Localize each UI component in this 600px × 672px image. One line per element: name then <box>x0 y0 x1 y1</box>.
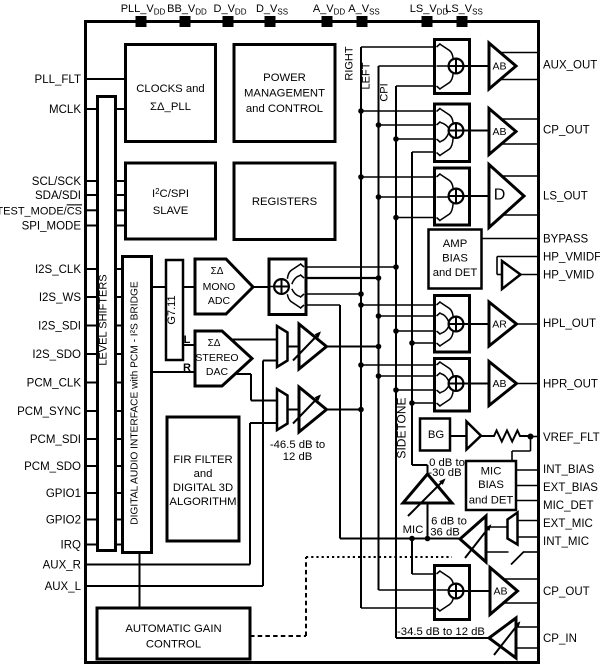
svg-text:PCM_SDI: PCM_SDI <box>30 434 81 446</box>
svg-text:STEREO: STEREO <box>195 352 238 364</box>
svg-text:MIC: MIC <box>481 466 502 478</box>
svg-text:CLOCKS and: CLOCKS and <box>136 83 204 95</box>
svg-text:and CONTROL: and CONTROL <box>246 103 323 115</box>
svg-text:AB: AB <box>492 61 506 73</box>
svg-text:AR: AR <box>492 319 507 331</box>
svg-text:PCM_CLK: PCM_CLK <box>27 378 82 390</box>
svg-text:and DET: and DET <box>469 495 514 507</box>
svg-text:G7.11: G7.11 <box>166 295 178 324</box>
svg-text:I2S_WS: I2S_WS <box>39 292 82 304</box>
svg-text:MIC_DET: MIC_DET <box>543 500 593 512</box>
svg-text:ΣΔ: ΣΔ <box>208 338 221 349</box>
svg-text:SIDETONE: SIDETONE <box>395 397 409 458</box>
svg-text:and: and <box>194 468 213 480</box>
svg-text:DIGITAL AUDIO INTERFACE with P: DIGITAL AUDIO INTERFACE with PCM - I²S B… <box>130 281 141 525</box>
svg-text:INT_MIC: INT_MIC <box>543 536 589 548</box>
svg-text:LEVEL SHIFTERS: LEVEL SHIFTERS <box>98 274 110 365</box>
svg-text:CP_OUT: CP_OUT <box>543 125 590 137</box>
svg-text:AMP: AMP <box>443 238 467 250</box>
svg-text:BIAS: BIAS <box>442 253 468 265</box>
svg-text:CP_OUT: CP_OUT <box>543 586 590 598</box>
svg-text:SDA/SDI: SDA/SDI <box>35 190 81 202</box>
svg-text:PLL_FLT: PLL_FLT <box>35 74 81 86</box>
svg-text:HP_VMIDFB: HP_VMIDFB <box>543 252 600 264</box>
svg-text:BIAS: BIAS <box>478 479 504 491</box>
svg-text:REGISTERS: REGISTERS <box>252 196 318 208</box>
svg-text:GPIO1: GPIO1 <box>46 488 81 500</box>
svg-text:-46.5 dB to: -46.5 dB to <box>270 439 325 451</box>
svg-text:ALGORITHM: ALGORITHM <box>169 496 236 508</box>
svg-text:MANAGEMENT: MANAGEMENT <box>244 88 325 100</box>
svg-text:HPR_OUT: HPR_OUT <box>543 379 598 391</box>
svg-text:FIR FILTER: FIR FILTER <box>173 454 232 466</box>
svg-text:MIC: MIC <box>403 524 424 536</box>
svg-text:CP_IN: CP_IN <box>543 633 577 645</box>
svg-text:RIGHT: RIGHT <box>344 46 356 81</box>
svg-text:GPIO2: GPIO2 <box>46 515 81 527</box>
svg-text:I2S_SDI: I2S_SDI <box>38 321 81 333</box>
svg-text:ADC: ADC <box>208 295 231 307</box>
svg-text:AUTOMATIC GAIN: AUTOMATIC GAIN <box>125 623 221 635</box>
svg-text:AUX_R: AUX_R <box>43 560 81 572</box>
svg-text:CONTROL: CONTROL <box>146 639 201 651</box>
svg-text:ΣΔ: ΣΔ <box>211 266 224 277</box>
svg-text:EXT_BIAS: EXT_BIAS <box>543 482 598 494</box>
svg-text:INT_BIAS: INT_BIAS <box>543 464 594 476</box>
svg-text:EXT_MIC: EXT_MIC <box>543 518 593 530</box>
svg-text:PCM_SYNC: PCM_SYNC <box>17 406 81 418</box>
svg-text:POWER: POWER <box>263 72 306 84</box>
svg-text:SCL/SCK: SCL/SCK <box>32 176 82 188</box>
svg-text:MCLK: MCLK <box>49 104 81 116</box>
svg-text:AB: AB <box>492 378 506 390</box>
svg-text:I2S_CLK: I2S_CLK <box>35 264 81 276</box>
svg-text:CPI: CPI <box>379 83 391 101</box>
svg-text:AUX_OUT: AUX_OUT <box>543 60 597 72</box>
svg-text:HPL_OUT: HPL_OUT <box>543 318 596 330</box>
svg-text:36 dB: 36 dB <box>430 527 460 539</box>
svg-text:BG: BG <box>428 429 444 441</box>
svg-text:SLAVE: SLAVE <box>153 205 189 217</box>
svg-text:LS_OUT: LS_OUT <box>543 191 588 203</box>
svg-text:TEST_MODE/CS: TEST_MODE/CS <box>0 205 82 217</box>
svg-text:IRQ: IRQ <box>61 540 82 552</box>
svg-text:DIGITAL 3D: DIGITAL 3D <box>173 482 233 494</box>
svg-text:AB: AB <box>492 126 506 138</box>
svg-text:SPI_MODE: SPI_MODE <box>22 221 82 233</box>
svg-text:PCM_SDO: PCM_SDO <box>24 461 81 473</box>
svg-text:-30 dB: -30 dB <box>428 467 461 479</box>
svg-text:VREF_FLT: VREF_FLT <box>543 432 600 444</box>
svg-text:and DET: and DET <box>433 267 478 279</box>
svg-text:MONO: MONO <box>203 281 236 293</box>
svg-text:HP_VMID: HP_VMID <box>543 270 594 282</box>
svg-text:DAC: DAC <box>206 366 229 378</box>
svg-text:BYPASS: BYPASS <box>543 234 588 246</box>
svg-text:-34.5 dB to 12 dB: -34.5 dB to 12 dB <box>397 626 485 638</box>
svg-text:AB: AB <box>493 586 507 598</box>
svg-text:12 dB: 12 dB <box>283 451 313 463</box>
svg-text:LEFT: LEFT <box>361 62 373 89</box>
svg-text:D: D <box>494 187 506 204</box>
svg-text:AUX_L: AUX_L <box>45 581 82 593</box>
svg-text:ΣΔ_PLL: ΣΔ_PLL <box>150 101 191 113</box>
svg-text:I2S_SDO: I2S_SDO <box>32 349 81 361</box>
